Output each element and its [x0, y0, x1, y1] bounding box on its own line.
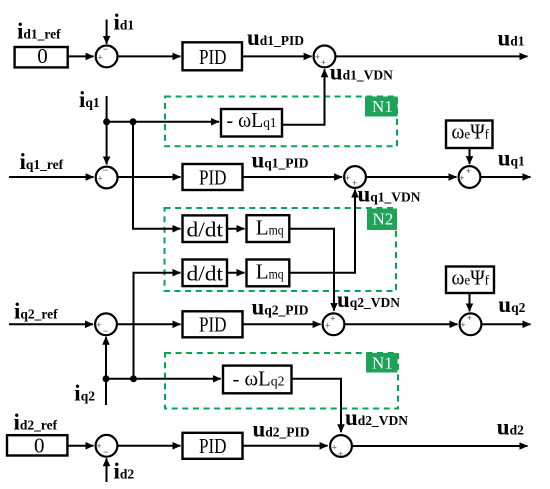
svg-text:0: 0: [34, 433, 45, 457]
block PID1: [183, 42, 243, 70]
dashed group N1 top: [165, 97, 397, 147]
wire S10 to PID4: [117, 445, 180, 447]
block Lmq1: [247, 215, 290, 242]
block minus omega Lq1: [221, 108, 282, 137]
svg-text:ωeΨf: ωeΨf: [452, 120, 490, 144]
block PID2: [183, 164, 243, 190]
summing junction S6 (q2 VDN): [323, 313, 345, 335]
svg-text:−: −: [103, 165, 108, 175]
svg-text:+: +: [96, 441, 101, 451]
wire iq2 up to S7: [105, 337, 107, 405]
wire iq2 branch to ddt2: [134, 273, 181, 379]
wire iq2_ref input: [9, 323, 93, 325]
wire S6 to S8: [344, 323, 457, 325]
wire id1 input: [106, 20, 108, 44]
svg-text:+: +: [330, 313, 335, 323]
svg-text:+: +: [315, 52, 320, 62]
wire PID4 to sum S9: [243, 445, 328, 447]
wire iq1_ref input: [9, 176, 94, 178]
wire ud1 output: [335, 55, 527, 57]
svg-text:PID: PID: [199, 45, 227, 69]
svg-text:0: 0: [37, 44, 48, 68]
wire iq2 branch to decoupling N1 bottom: [106, 378, 221, 380]
svg-text:N1: N1: [372, 353, 393, 372]
svg-text:N2: N2: [373, 210, 394, 229]
block minus omega Lq2: [223, 366, 292, 394]
summing junction S8 (q2 emf): [460, 313, 482, 335]
wire zero box 2 to sum S10: [67, 445, 93, 447]
svg-text:d/dt: d/dt: [187, 262, 224, 286]
dashed group N1 bottom: [165, 353, 398, 409]
svg-text:−: −: [103, 447, 108, 457]
wire S3 to PID2: [118, 176, 181, 178]
label N1 top: [365, 97, 398, 117]
dashed group N2: [165, 208, 397, 291]
svg-text:+: +: [467, 313, 472, 323]
wire Lq2 block to S9: [292, 379, 342, 432]
wire S1 to PID1: [118, 55, 181, 57]
summing junction S5 (q1 emf): [459, 166, 481, 188]
svg-text:PID: PID: [199, 313, 227, 337]
wire PID1 to sum S2: [243, 55, 312, 57]
wire iq1 down to sum S3: [106, 96, 108, 164]
wire iq1 branch to decoupling N1: [107, 121, 219, 123]
wire Lmq2 to S4: [289, 190, 355, 273]
summing junction S10 (d2 error): [96, 435, 118, 457]
block Lmq2: [247, 260, 290, 287]
wire PID3 to sum S6: [243, 323, 321, 325]
wire Lq1 block to S2: [282, 69, 325, 125]
wire zero box to sum S1: [68, 55, 94, 57]
svg-text:ωeΨf: ωeΨf: [452, 266, 490, 290]
wire id2 input: [106, 458, 108, 482]
svg-text:+: +: [321, 58, 326, 68]
wire PID2 to sum S4: [243, 176, 343, 178]
svg-text:+: +: [345, 173, 350, 183]
svg-text:−: −: [103, 44, 108, 54]
block omega psi f 1: [446, 120, 493, 149]
svg-text:−: −: [103, 326, 108, 336]
wire ddt2 to Lmq2: [227, 272, 245, 274]
svg-text:+: +: [96, 320, 101, 330]
svg-text:+: +: [325, 320, 330, 330]
junction dot iq1 B: [130, 118, 137, 125]
summing junction S9 (d2 VDN): [330, 435, 352, 459]
svg-text:+: +: [338, 449, 343, 459]
svg-text:+: +: [97, 53, 102, 63]
label N1 bottom: [366, 353, 398, 373]
junction dot iq2 B: [130, 375, 137, 382]
label N2: [367, 209, 397, 231]
wire psi1 to S5: [469, 149, 471, 165]
svg-text:+: +: [332, 443, 337, 453]
svg-text:+: +: [97, 174, 102, 184]
wire Lmq1 to S6: [289, 229, 334, 311]
summing junction S1 (d1 error): [96, 44, 118, 68]
block zero reference d1: [15, 44, 68, 68]
wire ud2 output: [352, 445, 528, 447]
block PID4: [183, 433, 243, 459]
svg-text:+: +: [459, 173, 464, 183]
svg-text:d/dt: d/dt: [187, 217, 224, 241]
block ddt2: [183, 260, 228, 287]
junction dot iq1 A: [103, 118, 110, 125]
block zero reference d2: [7, 433, 67, 457]
svg-text:+: +: [460, 320, 465, 330]
summing junction S2 (d1 VDN): [314, 46, 336, 68]
wire ddt1 to Lmq1: [227, 228, 245, 230]
svg-text:+: +: [352, 178, 357, 188]
wire uq1 output: [480, 176, 530, 178]
junction dot iq2 A: [103, 375, 110, 382]
wire S4 to S5: [366, 176, 457, 178]
svg-text:PID: PID: [199, 165, 227, 189]
block ddt1: [183, 215, 228, 242]
block PID3: [183, 311, 243, 337]
summing junction S4 (q1 VDN): [344, 166, 366, 188]
wire psi2 to S8: [469, 294, 471, 312]
summing junction S7 (q2 error): [95, 313, 117, 336]
wire uq2 output: [481, 323, 530, 325]
wire S7 to PID3: [117, 323, 181, 325]
svg-text:PID: PID: [199, 434, 227, 458]
block omega psi f 2: [446, 266, 494, 294]
svg-text:+: +: [466, 166, 471, 176]
svg-text:N1: N1: [372, 97, 393, 116]
summing junction S3 (q1 error): [96, 165, 118, 189]
wire iq1 branch to ddt1: [133, 122, 181, 229]
